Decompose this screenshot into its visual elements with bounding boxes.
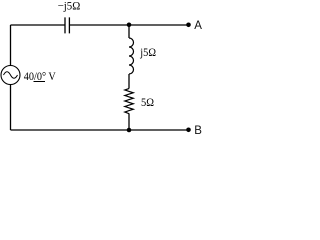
svg-text:−j5Ω: −j5Ω [58, 0, 81, 13]
capacitor C1 plates (-j5 ohm) [65, 17, 69, 33]
wire: top horizontal, left of capacitor [11, 24, 65, 26]
resistor R1 (5 ohm) zigzag [125, 89, 134, 114]
source V1 circle [1, 66, 20, 85]
svg-text:5Ω: 5Ω [141, 95, 154, 109]
svg-text:A: A [194, 20, 202, 32]
wire: between inductor and resistor [128, 74, 130, 89]
junction node: bottom of middle branch [127, 128, 132, 133]
wire: left vertical, top segment [10, 25, 12, 66]
wire: branch from top junction to inductor [128, 25, 130, 38]
svg-text:B: B [194, 125, 202, 137]
wire: bottom horizontal [11, 129, 189, 131]
wire: resistor to bottom junction [128, 114, 130, 130]
svg-text:j5Ω: j5Ω [139, 45, 156, 59]
source V1 sine wave [4, 72, 18, 79]
terminal A dot [186, 23, 191, 28]
angle notation underline [34, 81, 46, 83]
wire: left vertical, bottom segment [10, 85, 12, 131]
inductor L1 (j5 ohm) [129, 38, 134, 74]
junction node: top of middle branch [127, 23, 132, 28]
wire: top horizontal, right of capacitor [70, 24, 189, 26]
terminal B dot [186, 128, 191, 133]
